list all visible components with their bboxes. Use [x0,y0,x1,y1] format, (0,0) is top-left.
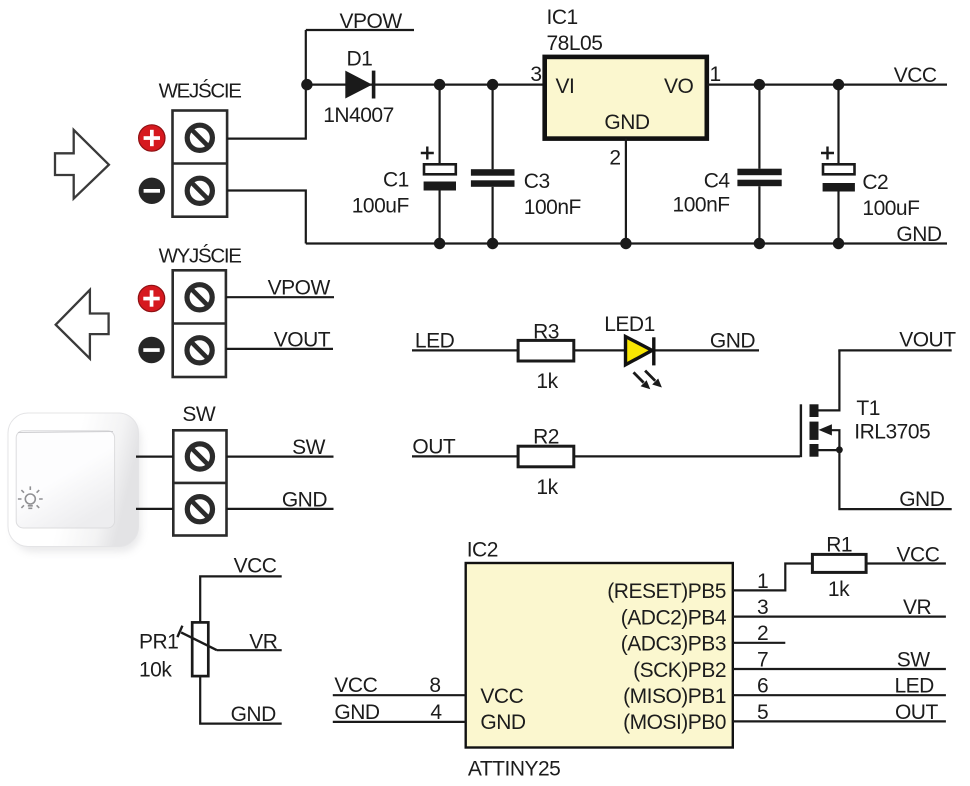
svg-text:VCC: VCC [894,64,937,87]
wire: T1 source to GND [839,450,951,509]
svg-text:GND: GND [710,330,756,353]
wire: IC1 pin2 to GND rail [625,139,627,244]
transistor T1 (N-MOSFET) [801,404,840,457]
wire: R1 to VCC [866,562,946,564]
svg-text:WEJŚCIE: WEJŚCIE [159,79,242,103]
svg-text:VPOW: VPOW [340,10,403,33]
screw terminal 1 of J1 [187,125,212,150]
wire: VCC to IC2 pin8 [333,694,466,696]
svg-text:C4: C4 [704,170,731,193]
svg-text:IC1: IC1 [547,6,578,29]
node: pin2 GND junction [620,238,631,249]
svg-text:100uF: 100uF [862,197,919,220]
svg-text:VCC: VCC [897,543,940,566]
svg-text:1k: 1k [536,476,558,499]
wire: PB0 to OUT [733,720,946,722]
node: C1 bottom junction [434,238,445,249]
svg-text:GND: GND [282,489,328,512]
svg-text:C3: C3 [524,170,550,193]
svg-text:8: 8 [429,674,440,697]
svg-text:1: 1 [757,570,768,593]
minus marker J2 (black) [138,337,164,363]
svg-text:T1: T1 [856,397,880,420]
plus marker J2 (red) [138,285,164,311]
svg-text:GND: GND [334,701,380,724]
svg-text:VPOW: VPOW [268,276,331,299]
wire: OUT row to gate [412,455,800,457]
svg-text:(SCK)PB2: (SCK)PB2 [633,659,726,682]
LED1 emission arrows [634,371,662,390]
input direction arrow [55,130,109,199]
svg-text:7: 7 [757,648,768,671]
svg-text:10k: 10k [139,658,172,681]
resistor R3 [518,340,574,361]
svg-text:LED: LED [894,675,934,698]
node: C2 top junction [833,79,844,90]
node: C2 bottom junction [833,238,844,249]
capacitor C4 (ceramic) [737,85,781,244]
svg-text:VOUT: VOUT [899,329,956,352]
wire: PR1 wiper to VR [217,649,282,651]
output direction arrow [56,290,109,359]
capacitor C3 (ceramic) [471,85,515,244]
svg-text:3: 3 [530,63,541,86]
svg-text:(MISO)PB1: (MISO)PB1 [623,685,726,708]
wire: J1 plus to VPOW node [227,30,306,139]
svg-text:VCC: VCC [480,685,523,708]
svg-text:R2: R2 [533,425,559,448]
wire: GND rail [306,242,947,244]
MCU IC2 ATTINY25 [466,563,733,748]
node: C3 top junction [487,79,498,90]
node: C4 top junction [754,79,765,90]
svg-text:GND: GND [480,711,526,734]
svg-text:SW: SW [182,403,216,426]
svg-text:1: 1 [710,63,721,86]
svg-text:VCC: VCC [234,555,277,578]
svg-text:VR: VR [903,596,932,619]
capacitor C2 (electrolytic) [821,85,855,244]
svg-text:VR: VR [249,630,278,653]
screw terminal 1 of J2 [187,285,212,310]
plus marker (red) [139,125,165,151]
svg-text:C1: C1 [383,168,409,191]
screw terminal 2 of J2 [187,338,212,363]
svg-text:GND: GND [899,488,945,511]
wire: PR1 bottom to GND [200,676,282,724]
LED LED1 [626,337,654,366]
wire: J2 pin1 VPOW [226,296,334,298]
node: T1 source junction [836,446,843,453]
wire: J1 minus to GND rail [227,191,306,244]
wire: LED row [412,349,759,351]
svg-text:1k: 1k [828,578,850,601]
svg-text:R1: R1 [826,533,852,556]
svg-text:SW: SW [292,436,326,459]
potentiometer PR1 [177,622,217,676]
svg-text:C2: C2 [862,171,888,194]
svg-text:WYJŚCIE: WYJŚCIE [159,244,242,268]
wire: GND to IC2 pin4 [333,721,466,723]
node: C1 top junction [434,79,445,90]
svg-text:D1: D1 [346,47,372,70]
wire: VCC stub to PR1 [200,576,282,622]
svg-text:GND: GND [231,703,277,726]
wire: PB1 to LED [733,694,946,696]
svg-text:ATTINY25: ATTINY25 [468,758,560,781]
screw terminal 1 of J3 [187,444,212,469]
svg-text:100uF: 100uF [352,194,409,217]
svg-text:LED: LED [415,330,455,353]
svg-text:SW: SW [897,648,931,671]
wire: diode input row [306,83,545,85]
svg-text:1N4007: 1N4007 [323,104,394,127]
resistor R1 [812,554,866,572]
wire: VOUT stub [838,349,951,351]
connector J3 SW terminal block [173,430,226,535]
wire: VOUT down to drain [819,350,840,410]
svg-text:OUT: OUT [412,436,456,459]
diode D1 [345,71,373,99]
capacitor C1 (electrolytic) [421,85,456,244]
svg-text:(RESET)PB5: (RESET)PB5 [607,580,726,603]
svg-text:4: 4 [430,701,442,724]
svg-text:VI: VI [556,75,575,98]
svg-text:100nF: 100nF [673,193,730,216]
svg-text:VO: VO [664,75,694,98]
wire: switch to J3 pin2 [136,508,173,510]
wire: J2 pin2 VOUT [226,348,333,350]
wire: VO to VCC [707,83,947,85]
connector J2 WYJŚCIE terminal block [173,270,226,377]
svg-text:3: 3 [757,596,768,619]
svg-text:(MOSI)PB0: (MOSI)PB0 [623,711,726,734]
wire: PB3 stub [733,642,786,644]
svg-text:2: 2 [609,147,620,170]
svg-text:(ADC3)PB3: (ADC3)PB3 [621,633,726,656]
resistor R2 [518,446,574,467]
regulator IC1 78L05 [545,57,707,139]
svg-text:78L05: 78L05 [547,32,603,55]
connector J1 WEJŚCIE terminal block [173,111,228,217]
screw terminal 2 of J3 [187,497,212,522]
screw terminal 2 of J1 [187,178,212,203]
svg-text:5: 5 [757,701,768,724]
wire: PB2 to SW [733,668,946,670]
svg-text:OUT: OUT [895,701,939,724]
wire: PB5 to R1 [733,564,813,591]
wire: switch to J3 pin1 [136,456,173,458]
svg-text:2: 2 [757,622,768,645]
svg-text:PR1: PR1 [139,630,178,653]
wire: VPOW net stub [306,29,414,31]
svg-text:6: 6 [757,675,768,698]
svg-text:R3: R3 [533,320,559,343]
svg-text:LED1: LED1 [604,313,655,336]
svg-text:GND: GND [604,111,650,134]
node: VPOW junction [301,79,312,90]
svg-text:IC2: IC2 [467,539,498,562]
node: C3 bottom junction [487,238,498,249]
svg-text:(ADC2)PB4: (ADC2)PB4 [621,606,727,629]
minus marker (black) [139,178,165,204]
wire: J3 pin1 SW net [227,456,334,458]
svg-text:IRL3705: IRL3705 [854,420,930,443]
node: C4 bottom junction [754,238,765,249]
svg-text:VCC: VCC [334,674,377,697]
svg-text:VOUT: VOUT [274,328,331,351]
svg-text:100nF: 100nF [524,196,581,219]
light switch photo [8,413,141,552]
svg-text:GND: GND [896,223,942,246]
wire: J3 pin2 GND net [227,508,334,510]
wire: PB4 to VR [733,615,946,617]
svg-text:1k: 1k [536,370,558,393]
